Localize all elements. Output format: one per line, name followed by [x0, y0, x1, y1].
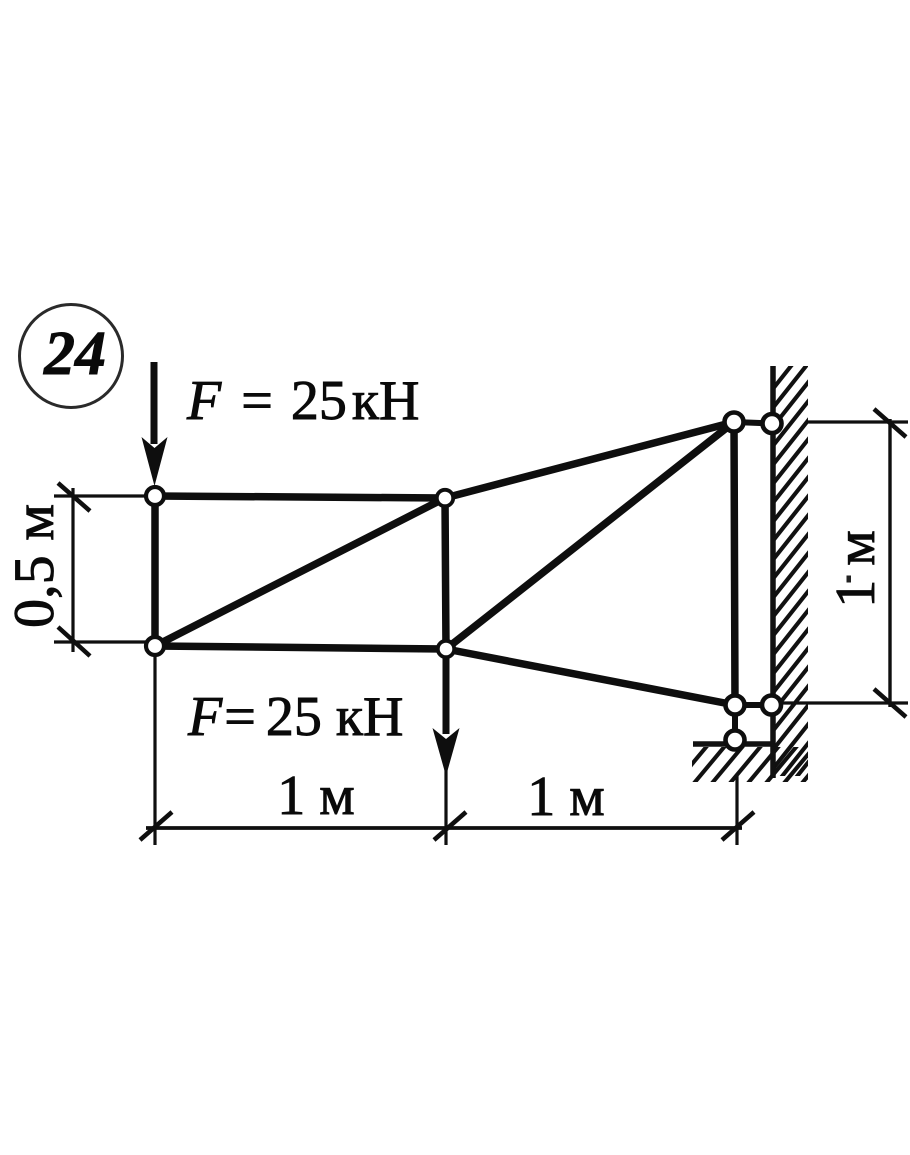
member top chord N3-N5 — [445, 422, 734, 498]
dimension 0,5 m: extension line bottom — [54, 640, 146, 643]
dimension 0,5 m: dimension line — [71, 488, 74, 652]
dimension bottom: dimension line — [146, 826, 742, 830]
ground line of roller support — [693, 741, 774, 747]
dimension bottom 1 m: extension line middle — [444, 762, 447, 845]
svg-text:1 м: 1 м — [277, 765, 354, 827]
member bottom chord N2-N4 — [155, 646, 446, 649]
truss members — [155, 422, 735, 705]
svg-text:F=25кН: F=25кН — [186, 370, 419, 432]
force arrow F1 head — [142, 437, 168, 486]
support link N6-W2 — [735, 702, 772, 708]
dimension right: dimension line — [888, 419, 891, 707]
member left vertical N1-N2 — [151, 496, 159, 646]
wall hatching — [772, 342, 810, 827]
dimension bottom: tick middle — [434, 812, 466, 840]
problem number circle 24 — [20, 305, 123, 408]
dimension right: small scan dash in label — [847, 576, 852, 583]
node N6 — [726, 696, 745, 715]
member right vertical N5-N6 — [734, 422, 735, 705]
svg-text:1 м: 1 м — [825, 530, 887, 607]
support link N5-W1 — [734, 422, 772, 424]
dimension right 1 m: extension line bottom — [779, 701, 908, 704]
node N2 — [146, 637, 164, 655]
dimension bottom left 1 m: extension line left — [153, 657, 156, 845]
node N4 — [438, 641, 454, 657]
member top chord N1-N3 — [155, 496, 445, 498]
dimension right 1 m: extension line top — [806, 420, 908, 423]
wall face line — [770, 366, 776, 778]
svg-text:1 м: 1 м — [527, 766, 604, 828]
member middle vertical N3-N4 — [445, 498, 446, 649]
dimension right: tick bottom — [874, 689, 906, 717]
force arrow F1 shaft — [151, 362, 158, 444]
dimension bottom: tick right — [722, 812, 754, 840]
force arrow F2 head — [433, 728, 460, 776]
node N3 — [437, 490, 453, 506]
dimension bottom 1 m: extension line right — [735, 776, 738, 845]
member diagonal N4-N5 — [446, 422, 734, 649]
force arrow F2 shaft — [443, 658, 450, 734]
node N1 — [146, 487, 164, 505]
node N5 — [725, 413, 744, 432]
dimension right: tick top — [874, 409, 906, 437]
dimension 0,5 m: tick top — [58, 483, 90, 511]
wall pin W2 — [762, 696, 781, 715]
svg-text:0,5 м: 0,5 м — [3, 504, 66, 628]
ground pin W3 — [726, 731, 745, 750]
support link N6-W3 — [732, 705, 738, 740]
dimension bottom: tick left — [140, 812, 172, 840]
svg-text:24: 24 — [43, 320, 106, 388]
member bottom chord N4-N6 — [446, 649, 735, 705]
svg-text:F=25кН: F=25кН — [187, 686, 403, 748]
member diagonal N2-N3 — [155, 498, 445, 646]
dimension 0,5 m: tick bottom — [58, 627, 90, 656]
wall pin W1 — [763, 414, 782, 433]
ground hatching under roller support — [672, 740, 838, 788]
dimension 0,5 m: extension line top — [54, 494, 146, 497]
